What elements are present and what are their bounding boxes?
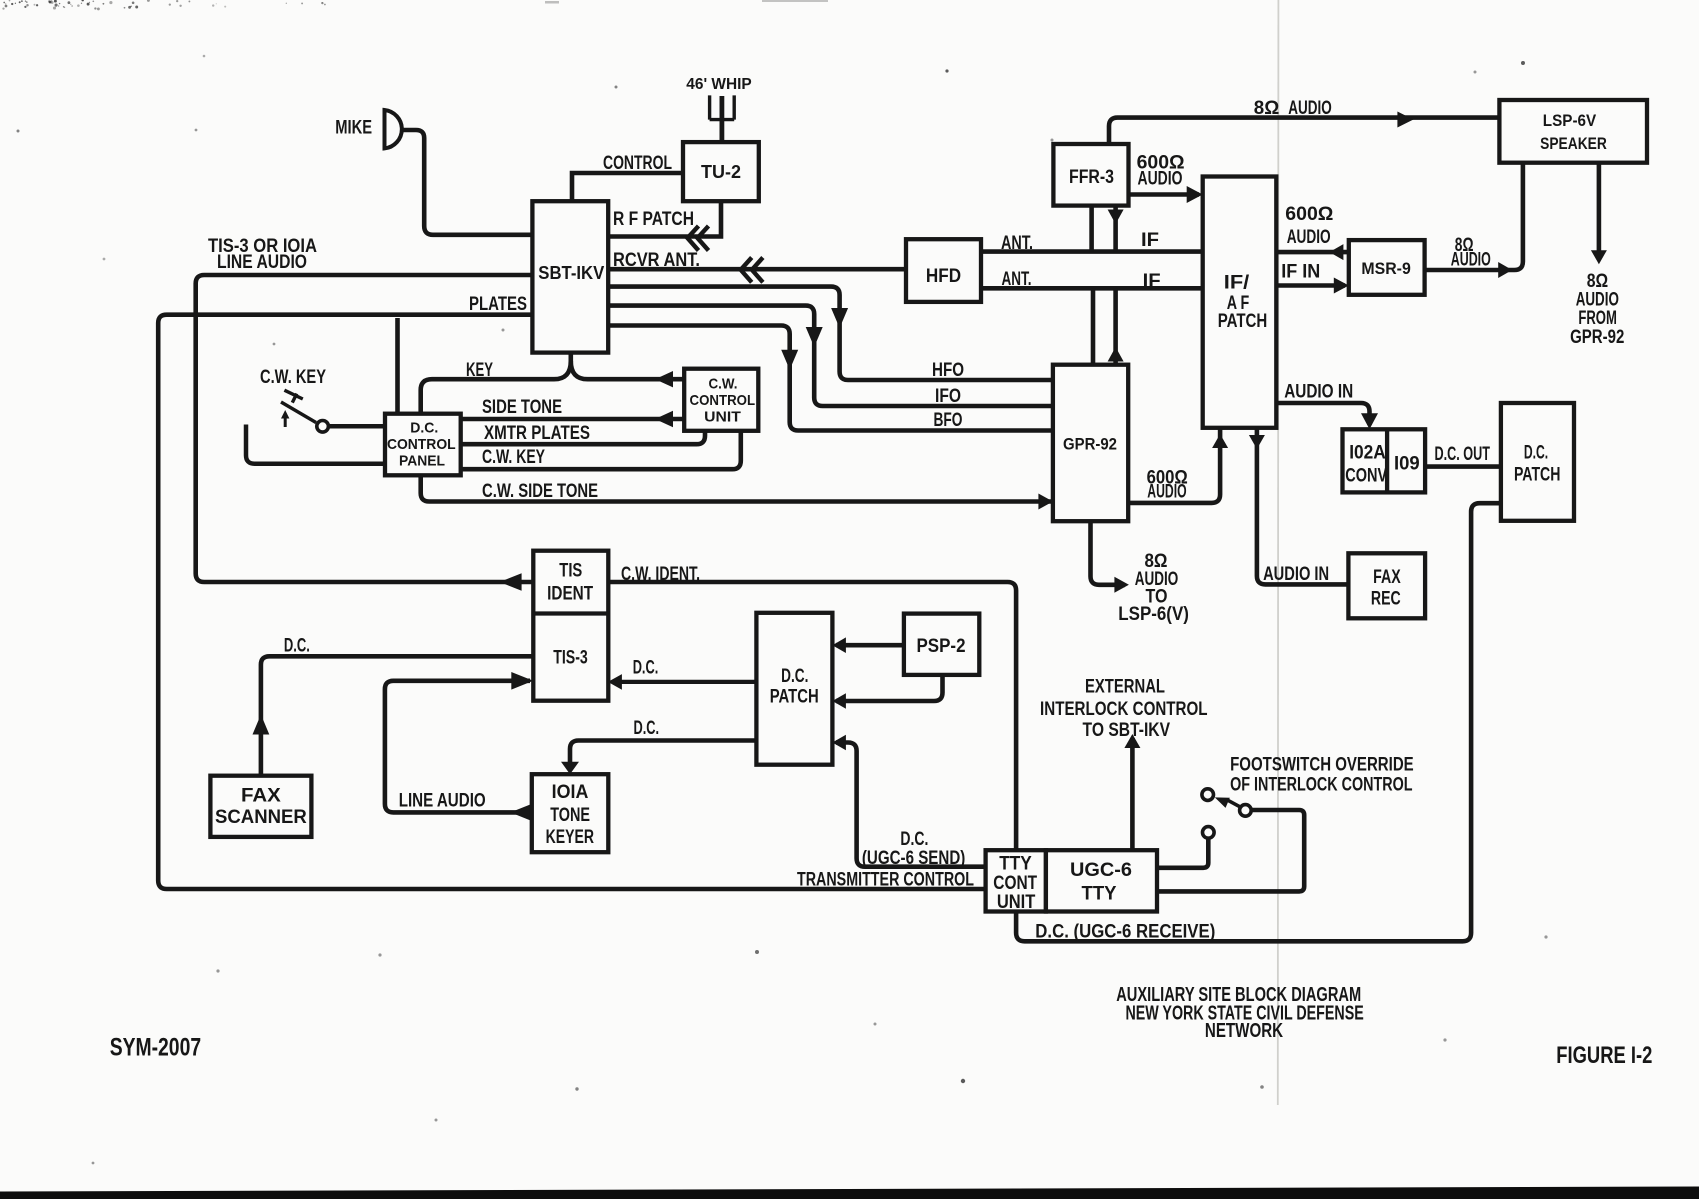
svg-text:AUDIO: AUDIO (1288, 98, 1332, 119)
svg-text:FAX: FAX (1373, 567, 1401, 588)
svg-text:(UGC-6 SEND): (UGC-6 SEND) (862, 848, 965, 869)
svg-text:C.W.: C.W. (709, 375, 738, 392)
svg-text:NETWORK: NETWORK (1205, 1020, 1284, 1042)
svg-text:SPEAKER: SPEAKER (1540, 134, 1607, 153)
svg-text:MIKE: MIKE (335, 118, 372, 139)
svg-text:I09: I09 (1394, 453, 1420, 474)
svg-text:IF IN: IF IN (1281, 262, 1320, 283)
svg-text:LSP-6(V): LSP-6(V) (1118, 604, 1189, 625)
svg-text:IFO: IFO (935, 386, 961, 407)
svg-text:AUDIO: AUDIO (1451, 250, 1491, 271)
svg-text:MSR-9: MSR-9 (1361, 259, 1410, 278)
svg-text:PATCH: PATCH (1218, 311, 1268, 332)
svg-text:TIS-3: TIS-3 (553, 647, 588, 668)
svg-text:RCVR ANT.: RCVR ANT. (613, 250, 700, 271)
svg-text:UNIT: UNIT (997, 892, 1036, 913)
svg-text:D.C.: D.C. (633, 657, 659, 678)
svg-text:C.W. KEY: C.W. KEY (482, 447, 545, 468)
svg-text:GPR-92: GPR-92 (1063, 435, 1117, 453)
svg-text:LSP-6V: LSP-6V (1543, 111, 1597, 130)
svg-text:SCANNER: SCANNER (215, 807, 307, 828)
svg-text:ANT.: ANT. (1001, 233, 1033, 254)
svg-text:TO SBT-IKV: TO SBT-IKV (1083, 720, 1171, 741)
svg-text:FAX: FAX (241, 786, 281, 807)
svg-text:C.W. KEY: C.W. KEY (260, 367, 326, 388)
svg-text:REC: REC (1371, 589, 1401, 610)
svg-text:HFD: HFD (926, 266, 961, 287)
svg-text:CONT: CONT (993, 873, 1037, 894)
svg-text:C.W. IDENT.: C.W. IDENT. (621, 564, 700, 585)
svg-text:ANT.: ANT. (1002, 269, 1032, 290)
svg-text:PATCH: PATCH (770, 686, 819, 707)
svg-text:C.W. SIDE TONE: C.W. SIDE TONE (482, 481, 598, 502)
svg-text:TTY: TTY (999, 854, 1032, 875)
svg-text:LINE AUDIO: LINE AUDIO (217, 252, 307, 273)
svg-text:UGC-6: UGC-6 (1070, 860, 1132, 881)
svg-text:D.C.: D.C. (1524, 442, 1548, 464)
svg-text:GPR-92: GPR-92 (1570, 327, 1624, 348)
svg-text:D.C. OUT: D.C. OUT (1435, 444, 1491, 465)
svg-text:TTY: TTY (1082, 884, 1117, 905)
svg-text:IOIA: IOIA (552, 782, 589, 803)
svg-text:PANEL: PANEL (399, 452, 445, 469)
svg-text:UNIT: UNIT (704, 409, 741, 426)
svg-text:FFR-3: FFR-3 (1069, 167, 1114, 188)
svg-text:IDENT: IDENT (547, 584, 593, 605)
svg-text:PATCH: PATCH (1514, 464, 1561, 486)
svg-text:600Ω: 600Ω (1285, 204, 1333, 225)
svg-text:KEY: KEY (466, 360, 493, 381)
svg-text:IF: IF (1141, 230, 1159, 251)
svg-text:TU-2: TU-2 (701, 161, 741, 182)
svg-text:AUDIO IN: AUDIO IN (1284, 382, 1353, 403)
svg-text:SYM-2007: SYM-2007 (110, 1034, 201, 1062)
svg-text:I02A: I02A (1349, 443, 1386, 464)
svg-text:AUDIO: AUDIO (1138, 169, 1183, 190)
svg-text:EXTERNAL: EXTERNAL (1085, 677, 1165, 698)
svg-text:PSP-2: PSP-2 (917, 636, 966, 657)
svg-text:AUDIO IN: AUDIO IN (1263, 564, 1329, 585)
svg-text:TRANSMITTER CONTROL: TRANSMITTER CONTROL (797, 869, 974, 890)
svg-text:IF: IF (1143, 271, 1161, 292)
svg-text:TIS: TIS (559, 561, 582, 582)
svg-text:CONTROL: CONTROL (387, 436, 456, 453)
svg-text:OF INTERLOCK CONTROL: OF INTERLOCK CONTROL (1230, 775, 1413, 796)
svg-text:8Ω: 8Ω (1254, 98, 1280, 119)
svg-text:SIDE TONE: SIDE TONE (482, 397, 562, 418)
svg-text:BFO: BFO (934, 410, 963, 431)
svg-text:D.C. (UGC-6 RECEIVE): D.C. (UGC-6 RECEIVE) (1035, 922, 1215, 943)
svg-text:HFO: HFO (932, 360, 964, 381)
svg-text:PLATES: PLATES (469, 294, 527, 315)
svg-text:CONTROL: CONTROL (603, 153, 672, 174)
svg-text:INTERLOCK CONTROL: INTERLOCK CONTROL (1040, 699, 1208, 720)
svg-text:D.C.: D.C. (781, 666, 808, 687)
svg-text:LINE AUDIO: LINE AUDIO (399, 790, 486, 811)
svg-text:IF/: IF/ (1224, 272, 1250, 293)
svg-text:D.C.: D.C. (900, 829, 928, 850)
svg-text:R F PATCH: R F PATCH (613, 209, 694, 230)
svg-text:XMTR PLATES: XMTR PLATES (484, 423, 590, 444)
svg-text:AUDIO: AUDIO (1287, 227, 1331, 248)
svg-text:D.C.: D.C. (634, 718, 660, 739)
svg-text:CONTROL: CONTROL (690, 392, 756, 409)
svg-text:D.C.: D.C. (284, 636, 310, 657)
svg-text:FIGURE I-2: FIGURE I-2 (1556, 1042, 1652, 1069)
svg-text:TONE: TONE (550, 805, 590, 826)
svg-text:CONV: CONV (1345, 466, 1387, 487)
svg-text:SBT-IKV: SBT-IKV (538, 262, 605, 283)
svg-text:FOOTSWITCH OVERRIDE: FOOTSWITCH OVERRIDE (1230, 755, 1414, 776)
svg-text:46' WHIP: 46' WHIP (686, 76, 751, 93)
svg-text:KEYER: KEYER (546, 827, 595, 848)
svg-text:AUDIO: AUDIO (1147, 482, 1186, 503)
svg-text:D.C.: D.C. (410, 419, 438, 436)
